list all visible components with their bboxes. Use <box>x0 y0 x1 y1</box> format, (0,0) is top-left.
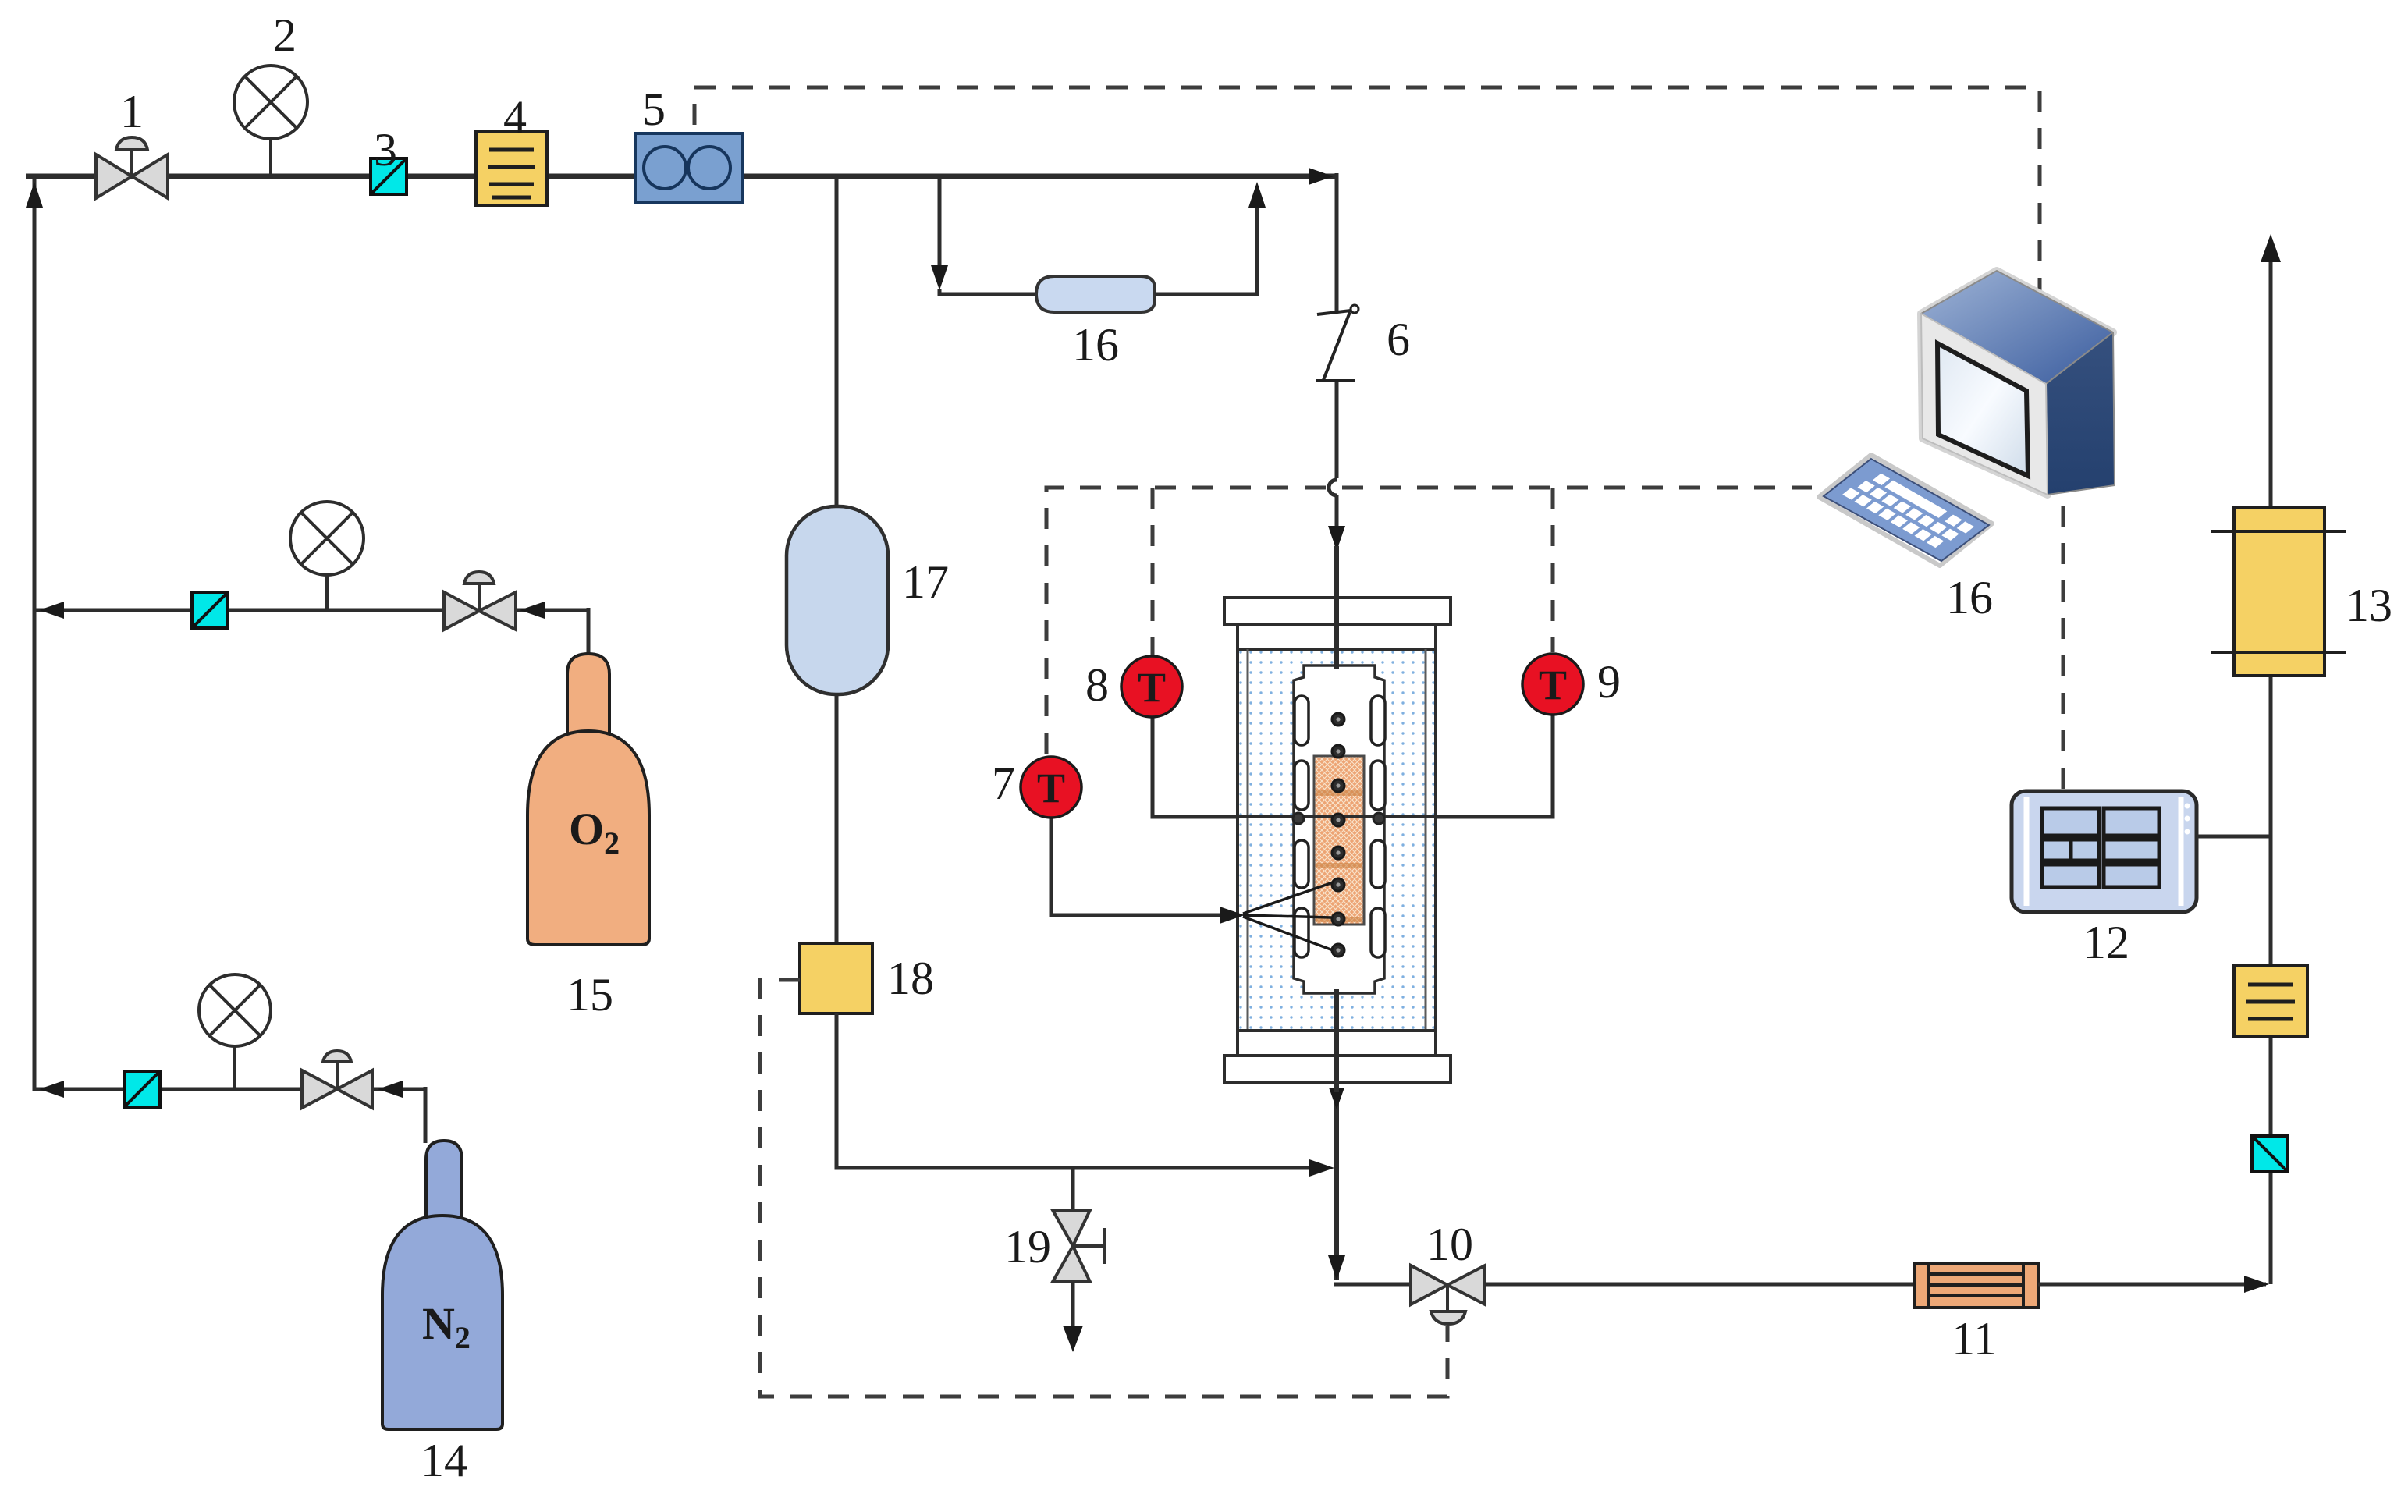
arrow right into riser <box>2244 1276 2269 1293</box>
check valve 3 <box>371 158 407 194</box>
wire reactor inlet pipe through flange <box>1334 546 1339 669</box>
pressure gauge 2 <box>234 66 307 176</box>
reactor jacket body <box>1238 649 1436 1031</box>
wire valve 10 to condenser 11 <box>1485 1283 1916 1287</box>
wire N2 bottle riser <box>424 1087 428 1143</box>
arrow right at thermocouple fan point <box>1220 907 1245 924</box>
wire 18 down and across to reactor outlet <box>836 1013 1328 1168</box>
arrow down into reactor <box>1328 526 1345 551</box>
wire vent riser (right side) <box>2269 239 2273 1284</box>
temperature sensor T8 <box>1121 656 1182 717</box>
svg-text:T: T <box>1539 662 1567 708</box>
wire reactor feed into vessel <box>1335 495 1339 548</box>
reactor top flange upper <box>1224 598 1451 624</box>
temperature sensor T9 <box>1522 654 1583 715</box>
svg-text:16: 16 <box>1946 572 1993 623</box>
thermocouple dot centers <box>1336 717 1340 952</box>
arrow down at reactor outlet corner <box>1328 1255 1345 1280</box>
wire reactor outlet to valve 10 <box>1334 1283 1411 1287</box>
wire bypass branch down <box>938 176 942 272</box>
wire N2 branch line <box>34 1088 425 1091</box>
signal line transmitter 18 to valve 10 (dashed) <box>760 980 1447 1397</box>
svg-text:17: 17 <box>902 556 949 608</box>
regulator valve on O2 line <box>444 572 516 630</box>
wire O2 branch line <box>34 609 588 612</box>
filter 4 <box>476 131 547 205</box>
svg-text:15: 15 <box>566 969 613 1020</box>
arrow down drain outlet <box>1063 1326 1083 1352</box>
wire bypass bottom left segment <box>939 289 1039 294</box>
svg-text:T: T <box>1138 664 1166 711</box>
wire reactor feed drop (main line corner down) <box>1335 173 1339 311</box>
svg-text:4: 4 <box>503 91 527 143</box>
O2 cylinder 15 body <box>527 731 649 945</box>
flexible connector 6 (break symbol) <box>1316 311 1355 381</box>
heater capsules left column <box>1295 696 1309 957</box>
pressure transmitter 18 <box>800 943 872 1013</box>
svg-text:3: 3 <box>374 124 397 176</box>
wire O2 bottle riser <box>587 608 591 659</box>
wire analyzer 12 to vent riser <box>2197 835 2271 839</box>
wire drain below valve 19 <box>1071 1282 1075 1331</box>
dryer 13 <box>2211 507 2346 676</box>
wire condenser 11 to riser <box>2038 1283 2266 1287</box>
N2 cylinder 14 body <box>382 1216 503 1429</box>
svg-text:18: 18 <box>887 953 934 1004</box>
drain valve 19 <box>1053 1210 1105 1282</box>
signal line pump 5 to computer (dashed) <box>694 87 2040 306</box>
svg-text:19: 19 <box>1004 1221 1051 1272</box>
svg-text:1: 1 <box>120 86 144 137</box>
thermocouple lead from T7 <box>1051 818 1234 915</box>
svg-text:13: 13 <box>2346 580 2392 631</box>
arrow left into header on N2 line <box>39 1081 64 1098</box>
gas analyzer 12 <box>2012 791 2197 912</box>
N2 cylinder 14 neck <box>426 1141 462 1219</box>
O2 cylinder 15 neck <box>567 654 609 735</box>
thermocouple lead from T8 and T9 (cross line) <box>1153 715 1553 817</box>
arrow up into main line on left header <box>26 182 43 208</box>
arrow left into header on O2 line <box>39 602 64 619</box>
wire branch down to buffer vessel 17 <box>835 176 839 509</box>
check valve on vent riser <box>2252 1136 2288 1172</box>
arrow up vent outlet <box>2261 234 2281 262</box>
reactor bottom flange upper <box>1238 1031 1436 1056</box>
reactor inner tube <box>1294 665 1384 993</box>
metering pump 5 <box>635 133 742 203</box>
arrow right on main line before corner <box>1309 168 1334 185</box>
wire branch down to drain valve 19 <box>1071 1168 1075 1212</box>
signal bus thermocouples to keyboard (dashed) <box>1046 488 1812 754</box>
arrow left on O2 line after valve <box>520 602 545 619</box>
pressure gauge on O2 line <box>290 502 364 610</box>
check valve on O2 line <box>192 592 228 628</box>
svg-text:2: 2 <box>273 9 297 61</box>
svg-text:14: 14 <box>421 1435 467 1486</box>
reactor outlet pipe through bottom flange <box>1334 989 1339 1092</box>
svg-text:16: 16 <box>1072 319 1119 371</box>
svg-text:8: 8 <box>1085 659 1109 711</box>
arrow up from bypass into main line <box>1248 182 1266 208</box>
wire reactor feed below connector 6 <box>1335 382 1339 478</box>
regulator valve on N2 line <box>302 1051 372 1108</box>
arrow down on bypass branch <box>931 265 948 290</box>
heater capsules right column <box>1371 696 1385 957</box>
wire reactor outlet pipe below vessel <box>1334 989 1339 1280</box>
arrow left on N2 line after valve <box>378 1081 403 1098</box>
wire left gas header vertical <box>33 176 37 1091</box>
condenser 11 <box>1914 1263 2038 1308</box>
svg-text:11: 11 <box>1952 1313 1997 1365</box>
wire main feed line (top header) <box>26 174 1337 179</box>
svg-text:6: 6 <box>1387 314 1410 365</box>
buffer vessel 17 <box>787 506 888 694</box>
arrow right into reactor outlet line <box>1309 1159 1334 1177</box>
needle valve 1 <box>96 137 168 198</box>
arrow down on reactor outlet below flange <box>1329 1088 1344 1109</box>
filter on vent riser <box>2234 966 2307 1037</box>
svg-text:9: 9 <box>1597 656 1621 708</box>
wire hop over signal bus <box>1329 480 1337 495</box>
wire bypass bottom right segment <box>1155 187 1257 294</box>
signal line monitor to analyzer 12 (dashed) <box>2062 506 2065 791</box>
reactor jacket inner wall lines <box>1248 649 1426 1031</box>
back pressure valve 10 <box>1411 1265 1485 1324</box>
computer keyboard 16 <box>1819 455 1992 566</box>
reactor bottom flange lower <box>1224 1056 1451 1083</box>
catalyst bed darker bands <box>1316 790 1362 922</box>
temperature sensor T7 <box>1021 757 1081 818</box>
wire vessel 17 to pressure transmitter 18 <box>835 694 839 945</box>
catalyst bed <box>1314 756 1364 925</box>
humidifier 16 (capsule on bypass) <box>1036 276 1155 312</box>
sensor cross line through vessel <box>1153 815 1553 818</box>
pressure gauge on N2 line <box>199 974 271 1089</box>
junction circles on cross line <box>1293 813 1304 824</box>
computer monitor 16 <box>1921 271 2115 495</box>
reactor inlet pipe overlay through flange <box>1334 577 1339 669</box>
thermocouple fan lines into reactor <box>1243 882 1333 950</box>
svg-text:7: 7 <box>992 758 1015 809</box>
svg-text:5: 5 <box>642 83 666 135</box>
check valve on N2 line <box>124 1071 160 1107</box>
svg-text:12: 12 <box>2083 917 2129 968</box>
reactor top flange lower <box>1238 624 1436 649</box>
thermocouple dots in reactor center <box>1332 713 1344 957</box>
svg-text:10: 10 <box>1426 1219 1473 1270</box>
svg-text:T: T <box>1037 765 1065 811</box>
